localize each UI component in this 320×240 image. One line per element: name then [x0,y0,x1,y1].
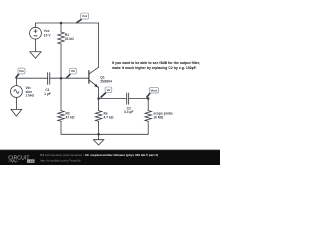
svg-text:Vb: Vb [71,69,75,73]
ground (bottom rail) [93,134,103,145]
footer bar [0,150,220,165]
svg-text:LAB: LAB [28,159,35,163]
svg-text:1 kHz: 1 kHz [26,94,35,98]
wire ground stem bottom [97,121,100,134]
node tag Vout [147,94,150,98]
wire Re branch [97,99,100,111]
transistor Q1 2N3904 [89,67,99,87]
svg-text:Vcc: Vcc [82,14,88,18]
voltage source V1 Vin sine 1 kHz [11,86,23,98]
node tag Vin [16,74,19,77]
wire C2 to Vout corner [129,99,149,111]
junction node Ve [97,97,100,100]
wire base (Vb node) [50,77,89,80]
junction ground bottom [97,133,100,136]
svg-text:make it much higher by replaci: make it much higher by replacing C2 by e… [112,66,197,70]
wire Vin to C1 [16,77,47,80]
svg-text:Bill Ashmanskas (ashmanskas) /: Bill Ashmanskas (ashmanskas) / AC couple… [40,153,158,157]
junction node Vb [60,77,63,80]
svg-text:3.3 µF: 3.3 µF [124,110,133,114]
wire V2 top stem [34,23,37,27]
svg-text:Q1: Q1 [100,76,105,80]
svg-text:Ve: Ve [107,88,111,92]
ground (below V1) [11,97,22,116]
capacitor C1 1uF [48,73,50,85]
wire Vin stem [15,78,18,85]
wire bottom rail [61,121,148,134]
svg-text:http://circuitlab.com/c/7eydx9: http://circuitlab.com/c/7eydx9y [40,159,81,163]
resistor R1 33k [58,23,65,78]
svg-text:sine: sine [26,90,33,94]
wire collector [97,23,100,67]
wire R2 branch [59,78,62,110]
svg-text:1 µF: 1 µF [44,92,51,96]
annotation note about f3dB [112,61,200,70]
ground (below V2) [30,39,41,58]
voltage source V2 Vcc 10 V [30,27,42,39]
wire top rail Vcc [36,21,99,24]
svg-text:R1: R1 [65,33,69,37]
svg-text:2N3904: 2N3904 [100,80,112,84]
svg-text:10 MΩ: 10 MΩ [153,115,163,119]
svg-text:If you want to be able to see: If you want to be able to see f3dB for t… [112,61,200,65]
svg-text:47 kΩ: 47 kΩ [66,115,75,119]
wire emitter rail to C2 [99,88,127,99]
svg-text:C1: C1 [45,88,49,92]
svg-text:Vout: Vout [151,88,158,92]
svg-text:Re: Re [104,112,108,116]
svg-text:Vcc: Vcc [44,29,50,33]
capacitor C2 3.3uF [127,93,129,104]
svg-text:scope probe: scope probe [153,112,173,116]
resistor scope probe 10M [145,111,152,122]
svg-text:Vin: Vin [26,86,31,90]
resistor R2 47k [58,111,65,122]
svg-text:R2: R2 [66,112,70,116]
node tag Vb [67,74,70,77]
svg-text:4.7 kΩ: 4.7 kΩ [104,115,114,119]
svg-text:Vin: Vin [19,69,24,73]
svg-text:C2: C2 [127,106,131,110]
node tag Ve [101,93,105,97]
junction node Vcc/R1 [60,22,63,25]
svg-text:33 kΩ: 33 kΩ [65,37,74,41]
footer CircuitLab logo [8,155,34,163]
junction node Vout [147,97,150,100]
svg-text:10 V: 10 V [44,33,52,37]
node tag Vcc [77,20,82,23]
resistor Re 4.7k [95,111,102,122]
